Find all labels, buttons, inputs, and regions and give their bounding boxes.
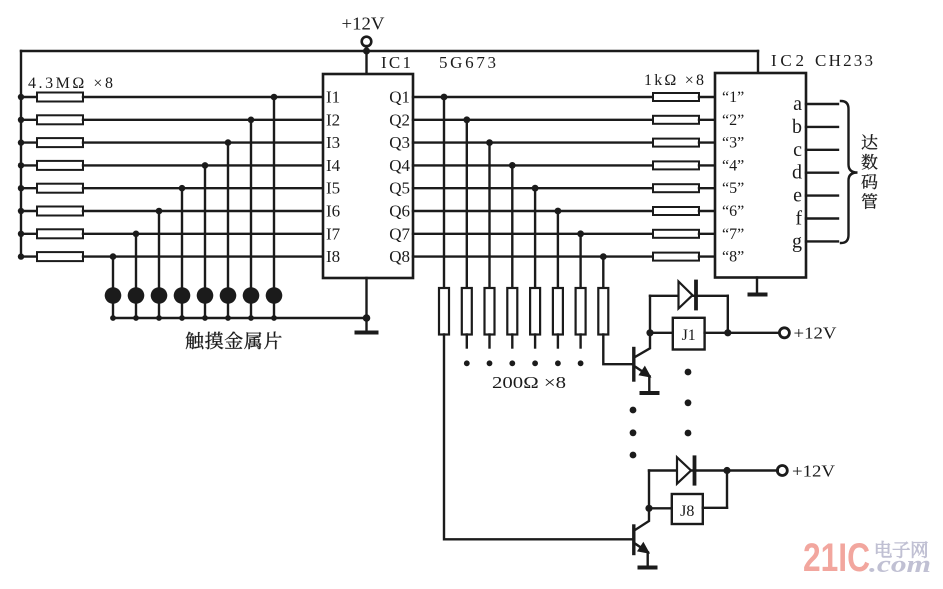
resistor 4.3M R7 (21, 229, 323, 238)
ground IC2 (750, 293, 766, 297)
svg-text:200Ω ×8: 200Ω ×8 (492, 373, 566, 392)
wire touch-pad drop row 5 (181, 188, 183, 287)
wire touch-pad drop row 4 (204, 165, 206, 287)
junction Q1 drop node (441, 94, 448, 101)
wire touch-pad drop row 8 (112, 257, 114, 288)
junction touch drop node row 8 (110, 253, 117, 260)
junction pad bus dot 2 (248, 315, 254, 321)
svg-text:c: c (793, 139, 802, 161)
svg-text:“4”: “4” (722, 157, 744, 174)
svg-text:Q6: Q6 (389, 202, 410, 221)
junction Q6 drop node (555, 208, 562, 215)
resistor 1k R13 (653, 139, 715, 147)
wire touch-pad drop row 7 (135, 234, 137, 287)
svg-text:+12V: +12V (792, 462, 836, 481)
resistor 200 ohm R26 (553, 288, 563, 335)
pin I1 label (326, 88, 340, 107)
junction Q4 drop node (509, 162, 516, 169)
pin I7 label (326, 224, 341, 243)
wire Q2 output row (413, 119, 653, 121)
pin b label (792, 116, 802, 138)
op-amp U1 IC1 5G673 body (323, 74, 413, 278)
junction input bus node row 2 (18, 117, 24, 123)
pin "5" label (722, 180, 744, 197)
wire Q4 drop to 200 ohm (511, 165, 513, 288)
wire D1 left leg (649, 296, 651, 333)
junction pad bus dot 7 (133, 315, 139, 321)
resistor 4.3M R3 (21, 138, 323, 147)
resistor 200 ohm R21 (439, 288, 449, 335)
wire D8 right leg (726, 471, 728, 508)
wire left input bus (20, 51, 22, 257)
wire pad 2 to common bus (250, 303, 252, 318)
svg-text:f: f (795, 208, 802, 230)
pin "8" label (722, 249, 744, 266)
resistor 4.3M R2 (21, 115, 323, 124)
svg-text:+12V: +12V (794, 324, 838, 343)
wire Q7 output row (413, 233, 653, 235)
wire segment output f (806, 217, 838, 219)
wire Q7 drop to 200 ohm (579, 234, 581, 288)
junction input bus node row 5 (18, 185, 24, 191)
svg-text:21IC: 21IC (803, 536, 870, 580)
wire IC1 ground pin (365, 278, 367, 332)
junction touch drop node row 6 (156, 208, 163, 215)
resistor 1k R16 (653, 207, 715, 215)
touch pad P7 (128, 287, 145, 304)
svg-text:J8: J8 (680, 503, 694, 520)
resistor 1k R15 (653, 184, 715, 192)
wire touch-pad common bus (113, 317, 367, 319)
pin "1" label (722, 89, 744, 106)
svg-text:“1”: “1” (722, 89, 744, 106)
node ellipsis column left (630, 407, 637, 459)
wire touch-pad drop row 6 (158, 211, 160, 287)
resistor 1k R18 (653, 253, 715, 261)
resistor 200 ohm R22 (462, 288, 472, 335)
junction touch drop node row 5 (179, 185, 186, 192)
wire segment output b (806, 126, 838, 128)
pin a label (793, 93, 802, 115)
pin I4 label (326, 156, 341, 175)
svg-text:I1: I1 (326, 88, 340, 107)
svg-text:Q2: Q2 (389, 110, 410, 129)
pin I8 label (326, 247, 340, 266)
junction Q8 drop node (600, 253, 607, 260)
wire Q4 output row (413, 164, 653, 166)
pin I5 label (326, 179, 340, 198)
junction J1 +12V node (724, 329, 731, 336)
junction Q7 drop node (577, 230, 584, 237)
svg-text:IC1: IC1 (381, 53, 411, 72)
wire +12V top rail (21, 50, 758, 52)
touch pad P6 (151, 287, 168, 304)
wire pad 1 to common bus (273, 303, 275, 318)
svg-text:I4: I4 (326, 156, 341, 175)
svg-text:“8”: “8” (722, 249, 744, 266)
svg-text:Q8: Q8 (389, 247, 410, 266)
wire segment output a (806, 103, 838, 105)
wire pad 7 to common bus (135, 303, 137, 318)
junction input bus node row 3 (18, 139, 24, 145)
touch pad P1 (266, 287, 283, 304)
wire R26 stub (557, 335, 559, 348)
junction input bus node row 8 (18, 253, 24, 259)
wire R28 to Q10 base (603, 335, 634, 365)
junction pad bus dot 5 (179, 315, 185, 321)
svg-text:“3”: “3” (722, 135, 744, 152)
resistor 4.3M R8 (21, 252, 323, 261)
svg-text:CH233: CH233 (815, 51, 873, 70)
junction Q2 drop node (463, 116, 470, 123)
wire Q3 output row (413, 141, 653, 143)
pin Q1 label (389, 88, 410, 107)
pin f label (795, 208, 802, 230)
junction input bus node row 7 (18, 231, 24, 237)
label 1k ohm x8 (644, 72, 704, 89)
junction pad bus dot 4 (202, 315, 208, 321)
pin I2 label (326, 110, 340, 129)
wire Q5 drop to 200 ohm (534, 188, 536, 288)
svg-text:e: e (793, 185, 802, 207)
diode D1 (650, 282, 728, 309)
svg-text:+12V: +12V (342, 14, 385, 34)
svg-text:Q4: Q4 (389, 156, 410, 175)
wire Q8 drop to 200 ohm (602, 257, 604, 288)
svg-text:Q1: Q1 (389, 88, 410, 107)
wire pad 5 to common bus (181, 303, 183, 318)
wire pad 6 to common bus (158, 303, 160, 318)
resistor 1k R12 (653, 116, 715, 124)
pin Q2 label (389, 110, 410, 129)
junction +12V rail dot (363, 48, 370, 55)
wire R23 stub (488, 335, 490, 348)
label 4.3M ohm x8 (28, 75, 113, 92)
touch pad P5 (174, 287, 191, 304)
wire touch-pad drop row 2 (250, 120, 252, 287)
pin e label (793, 185, 802, 207)
pin "3" label (722, 135, 744, 152)
svg-text:.com: .com (869, 552, 931, 578)
resistor 200 ohm R23 (485, 288, 495, 335)
wire R27 stub (579, 335, 581, 348)
pin g label (792, 230, 802, 252)
junction touch drop node row 7 (133, 231, 140, 238)
wire Q5 output row (413, 187, 653, 189)
svg-text:b: b (792, 116, 802, 138)
junction pad bus dot 8 (110, 315, 116, 321)
svg-text:I6: I6 (326, 202, 340, 221)
resistor 4.3M R1 (21, 93, 323, 102)
junction input bus node row 4 (18, 162, 24, 168)
node +12V supply terminal (342, 14, 385, 47)
relay J8 (649, 494, 727, 524)
node +12V terminal upper (779, 324, 837, 343)
svg-text:“6”: “6” (722, 203, 744, 220)
junction input bus node row 1 (18, 94, 24, 100)
svg-text:g: g (792, 230, 802, 252)
svg-text:Q3: Q3 (389, 133, 410, 152)
diode D8 (649, 457, 727, 483)
node ellipsis column right (685, 369, 692, 437)
pin Q7 label (389, 224, 410, 243)
wire Q3 drop to 200 ohm (488, 143, 490, 288)
wire segment output g (806, 240, 838, 242)
touch pad P4 (197, 287, 214, 304)
pin c label (793, 139, 802, 161)
svg-text:I5: I5 (326, 179, 340, 198)
pin d label (792, 162, 802, 184)
watermark 21IC.com logo (803, 536, 931, 580)
pin "7" label (722, 226, 744, 243)
svg-text:I7: I7 (326, 224, 341, 243)
resistor 1k R11 (653, 93, 715, 101)
pin Q3 label (389, 133, 410, 152)
label touch metal pads (186, 332, 282, 350)
node ellipsis under 200 ohm resistors (464, 360, 584, 366)
wire touch-pad drop row 1 (273, 97, 275, 287)
svg-text:Q7: Q7 (389, 224, 410, 243)
label to digital display (862, 134, 878, 209)
pin Q6 label (389, 202, 410, 221)
junction touch drop node row 3 (225, 139, 232, 146)
resistor 1k R14 (653, 161, 715, 169)
wire D1 right leg (727, 296, 729, 333)
junction touch drop node row 4 (202, 162, 209, 169)
wire R25 stub (534, 335, 536, 348)
svg-text:a: a (793, 93, 802, 115)
pin "2" label (722, 112, 744, 129)
brace to display (841, 101, 858, 243)
junction touch drop node row 1 (271, 94, 278, 101)
svg-text:“5”: “5” (722, 180, 744, 197)
resistor 200 ohm R27 (576, 288, 586, 335)
wire touch-pad drop row 3 (227, 143, 229, 288)
junction D8 +12V node (723, 467, 730, 474)
ground Q10 emitter (642, 391, 658, 395)
touch pad P8 (105, 287, 122, 304)
pin "6" label (722, 203, 744, 220)
wire D8 left leg (648, 471, 650, 509)
wire Q6 output row (413, 210, 653, 212)
resistor 200 ohm R28 (598, 288, 608, 335)
svg-text:I3: I3 (326, 133, 340, 152)
wire R24 stub (511, 335, 513, 348)
wire D8 to +12V terminal (727, 469, 778, 471)
svg-text:I8: I8 (326, 247, 340, 266)
resistor 1k R17 (653, 230, 715, 238)
wire IC2 +12V pin (757, 51, 759, 73)
junction J8 collector node (645, 505, 652, 512)
junction J1 collector node (646, 329, 653, 336)
pin I6 label (326, 202, 340, 221)
junction touch drop node row 2 (248, 117, 255, 124)
svg-text:“2”: “2” (722, 112, 744, 129)
wire +12V tap to IC1 pin (365, 46, 367, 74)
junction pad bus dot 6 (156, 315, 162, 321)
transistor Q9 (634, 508, 649, 566)
wire segment output d (806, 171, 838, 173)
svg-text:J1: J1 (682, 327, 696, 344)
wire segment output c (806, 149, 838, 151)
wire Q8 output row (413, 255, 653, 257)
svg-text:d: d (792, 162, 802, 184)
wire R22 stub (466, 335, 468, 348)
wire Q1 output row (413, 96, 653, 98)
pin Q5 label (389, 179, 410, 198)
wire pad 4 to common bus (204, 303, 206, 318)
junction pad bus dot 1 (271, 315, 277, 321)
wire pad 3 to common bus (227, 303, 229, 318)
touch pad P3 (220, 287, 237, 304)
junction pad bus dot 3 (225, 315, 231, 321)
transistor Q10 (634, 333, 650, 392)
pin I3 label (326, 133, 340, 152)
wire J1 to +12V terminal (728, 332, 780, 334)
svg-text:Q5: Q5 (389, 179, 410, 198)
wire R21 to Q9 base (444, 335, 634, 540)
junction Q5 drop node (532, 185, 539, 192)
pin Q8 label (389, 247, 410, 266)
wire segment output e (806, 194, 838, 196)
svg-text:“7”: “7” (722, 226, 744, 243)
ground touch bus (357, 331, 377, 335)
node +12V terminal lower (777, 462, 835, 481)
wire pad 8 to common bus (112, 303, 114, 318)
resistor 200 ohm R24 (507, 288, 517, 335)
resistor 200 ohm R25 (530, 288, 540, 335)
ground Q9 emitter (640, 566, 656, 570)
svg-text:IC2: IC2 (771, 51, 804, 70)
junction Q3 drop node (486, 139, 493, 146)
resistor 4.3M R6 (21, 207, 323, 216)
resistor 4.3M R4 (21, 161, 323, 170)
junction IC1 ground / touch bus (363, 314, 371, 322)
relay J1 (650, 318, 728, 350)
pin Q4 label (389, 156, 410, 175)
op-amp U2 IC2 CH233 body (715, 73, 806, 278)
label IC2 CH233 (771, 51, 873, 70)
wire IC2 ground pin (756, 278, 758, 294)
wire Q6 drop to 200 ohm (557, 211, 559, 288)
touch pad P2 (243, 287, 260, 304)
resistor 4.3M R5 (21, 184, 323, 193)
wire Q2 drop to 200 ohm (466, 120, 468, 288)
label 200 ohm x8 (492, 373, 566, 392)
label IC1 5G673 (381, 53, 496, 72)
pin "4" label (722, 157, 744, 174)
wire Q1 drop to 200 ohm (443, 97, 445, 288)
junction input bus node row 6 (18, 208, 24, 214)
svg-text:I2: I2 (326, 110, 340, 129)
